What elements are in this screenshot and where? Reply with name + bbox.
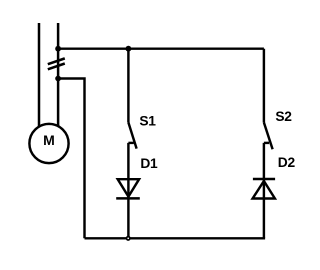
node: mid-left junction: [55, 76, 61, 82]
wire: left supply line: [38, 23, 41, 127]
svg-text:S2: S2: [275, 109, 292, 124]
diode D2: [253, 179, 276, 199]
wire: right supply line: [57, 23, 60, 126]
motor M1: [29, 124, 68, 163]
diode D1: [116, 179, 140, 198]
switch S2: [264, 123, 273, 150]
cable cord marks: [48, 58, 65, 69]
svg-text:S1: S1: [139, 114, 156, 129]
node: S1 branch junction: [125, 46, 131, 52]
svg-text:D1: D1: [140, 156, 158, 171]
wire: bottom bus: [85, 237, 266, 239]
wire: S1 to D1: [127, 143, 129, 238]
wire: S1 branch top: [127, 49, 129, 123]
switch S1: [128, 123, 136, 149]
wire: S2 branch top: [263, 49, 265, 123]
wire: motor return: [58, 79, 84, 239]
wire: S2 to bottom: [263, 143, 265, 238]
node: bottom junction: [127, 237, 130, 240]
node: top-left junction: [55, 46, 61, 52]
svg-text:D2: D2: [278, 155, 296, 170]
wire: top bus: [58, 47, 264, 49]
svg-text:M: M: [43, 132, 55, 148]
